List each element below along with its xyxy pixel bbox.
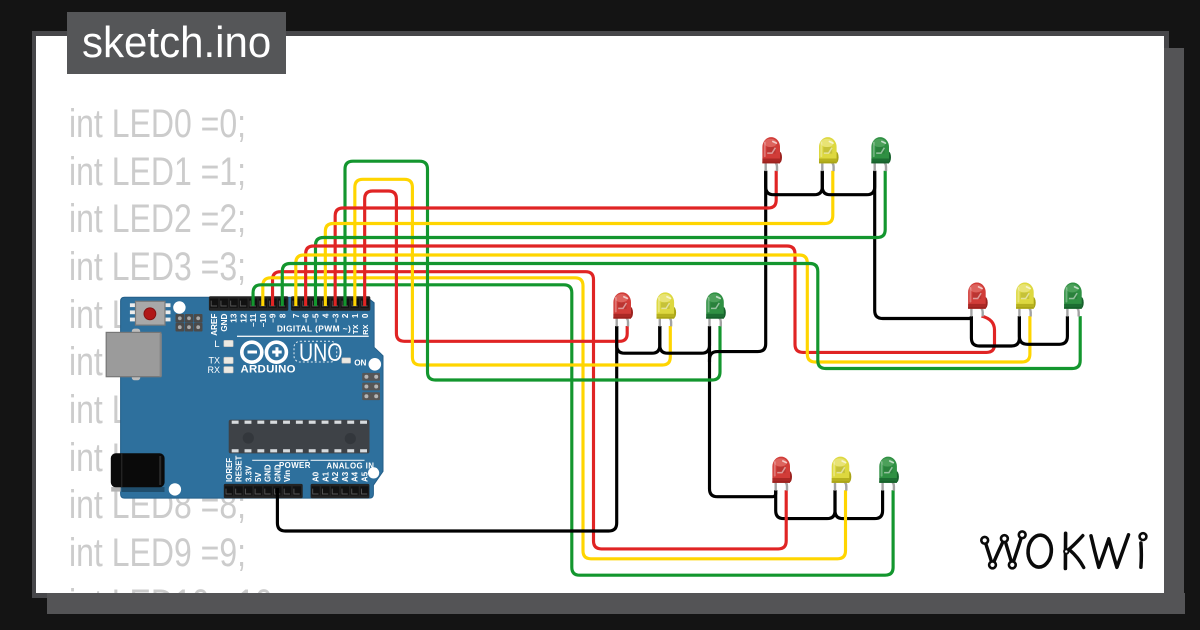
svg-text:A2: A2 [331,471,340,482]
wire D4 to LED1-yellow (group1) [325,171,832,306]
svg-text:ON: ON [354,358,366,367]
wire D6 to LED3-red (group3) [306,246,995,352]
analog header [311,484,370,498]
wire D1 to LED2-yellow (group2) [355,179,670,365]
mounting hole B [369,358,382,371]
USB connector [106,329,162,381]
LED group 4 (bottom) green (green) [879,457,899,491]
svg-text:A3: A3 [341,471,350,482]
LED group 3 (middle right) yellow (yellow) [1016,283,1036,317]
svg-text:13: 13 [230,313,239,323]
barrel power jack [111,453,165,492]
LED group 1 (top right) green (green) [871,137,891,171]
wire D0 to LED2-red (group2) [365,191,628,341]
bottom shadow band [47,593,1185,614]
wire LED2-green cathode to LED4-red cathode (gnd riser) [710,326,776,497]
LED group 2 (middle left) green (green) [706,292,726,326]
svg-text:DIGITAL (PWM ~): DIGITAL (PWM ~) [277,323,351,333]
svg-text:5V: 5V [254,472,263,482]
svg-text:3.3V: 3.3V [244,465,253,482]
UNO label [294,339,343,367]
arduino infinity logo [242,342,287,362]
svg-text:–9: –9 [269,313,278,323]
wire GND pin to LED2-red cathode [277,326,616,531]
svg-text:–3: –3 [331,313,340,323]
right shadow band [1164,48,1184,614]
mounting hole C [169,483,181,495]
wire group1 cathode bus left (red-yellow) [766,171,823,195]
wire D7 to LED3-yellow (group3) [296,255,1030,362]
ICSP header (serial) [176,314,203,332]
wire D11 to LED4-green (group4) [253,285,893,575]
digital pin header J2 (pins 0-7) [291,296,370,311]
digital pin header J1 (pins 8-13,GND,AREF) [209,296,288,311]
wire group1 cathode bus right (yellow-green) [822,171,874,195]
wire LED1-red cathode to group2/group4 gnd junction [710,171,766,362]
svg-text:RX: RX [361,325,370,335]
LED group 1 (top right) red (red) [762,137,782,171]
svg-text:L: L [214,339,219,350]
wire D3 to LED1-red (group1) [335,171,776,306]
wire group2 cathode bus right (yellow-green) [660,326,710,353]
LED group 2 (middle left) yellow (yellow) [657,292,677,326]
onboard LED ON [342,358,351,363]
arduino uno board U1 [121,297,383,498]
mounting hole A [173,301,185,313]
LED group 4 (bottom) red (red) [772,457,792,491]
svg-text:IOREF: IOREF [225,458,234,482]
svg-text:–6: –6 [302,313,311,323]
svg-text:AREF: AREF [210,314,219,336]
svg-text:–11: –11 [249,313,258,327]
svg-text:–10: –10 [259,313,268,327]
svg-text:RESET: RESET [235,456,244,482]
wire D10 to LED4-yellow (group4) [263,278,846,559]
svg-text:4: 4 [321,313,330,318]
svg-text:GND: GND [264,464,273,482]
LED group 2 (middle left) red (red) [613,292,633,326]
sketch.ino tab [67,12,286,75]
WOKWI logo [981,531,1146,568]
svg-text:1: 1 [351,313,360,318]
wire group3 cathode bus right (yellow-green) [1019,316,1067,344]
power header [224,484,303,498]
wire D2 to LED2-green (group2) [345,161,720,380]
svg-text:7: 7 [292,313,301,318]
LED group 1 (top right) yellow (yellow) [819,137,839,171]
svg-text:A0: A0 [312,471,321,482]
LED group 3 (middle right) green (green) [1064,283,1084,317]
mounting hole D [368,467,379,478]
wire group4 cathode bus left (yellow-red) [776,490,835,518]
reset button [130,301,171,325]
wire group4 cathode bus right (yellow-green) [835,490,883,518]
wire LED1-green cathode to LED3-red cathode [875,171,972,319]
ICSP header (SPI) [362,373,380,400]
svg-text:RX: RX [207,365,220,375]
svg-text:–5: –5 [312,313,321,323]
svg-text:A4: A4 [351,471,360,482]
svg-text:12: 12 [239,313,248,323]
svg-text:GND: GND [220,314,229,332]
svg-text:0: 0 [361,313,370,318]
svg-text:ARDUINO: ARDUINO [241,364,296,376]
svg-text:8: 8 [278,313,287,318]
svg-text:A1: A1 [321,471,330,482]
svg-text:TX: TX [351,325,360,335]
wire D8 to LED3-green (group3) [282,264,1080,369]
svg-text:POWER: POWER [279,461,311,470]
digital pin labels [210,313,370,336]
LED group 4 (bottom) yellow (yellow) [832,457,852,491]
wire D9 to LED4-red (group4) [273,272,787,549]
svg-text:Vin: Vin [283,470,292,482]
ATmega328 chip [229,420,370,454]
svg-text:ANALOG IN: ANALOG IN [327,462,375,471]
svg-text:UNO: UNO [299,339,343,367]
power/analog labels [225,456,374,482]
svg-text:A5: A5 [360,471,369,482]
wire D5 to LED1-green (group1) [315,171,885,306]
svg-text:2: 2 [341,313,350,318]
wire group2 cathode bus left (red-yellow) [617,326,660,353]
LED group 3 (middle right) red (red) [968,282,988,316]
wire group3 cathode bus left (yellow-red) [971,316,1019,346]
